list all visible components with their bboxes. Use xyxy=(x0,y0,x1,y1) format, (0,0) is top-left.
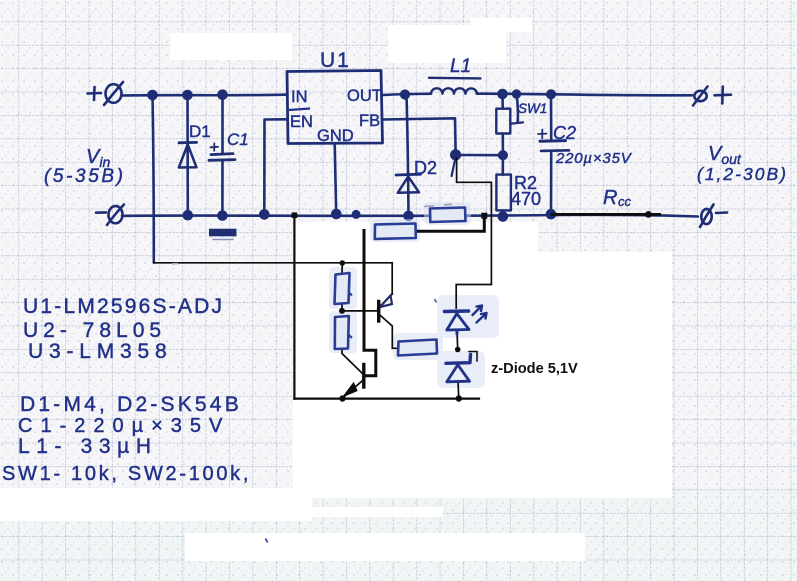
svg-text:D1: D1 xyxy=(189,122,211,141)
transistor Q2 emitter with arrow xyxy=(343,380,364,398)
capacitor C2 xyxy=(550,94,553,140)
svg-text:U1-LM2596S-ADJ: U1-LM2596S-ADJ xyxy=(23,295,224,318)
node on black wire xyxy=(340,260,346,266)
terminal phi (output +) xyxy=(694,91,706,101)
svg-text:(5-35B): (5-35B) xyxy=(44,166,126,187)
wire top rail right xyxy=(477,94,692,96)
node OUT xyxy=(401,91,409,99)
svg-text:C1-220µ×35V: C1-220µ×35V xyxy=(18,415,230,437)
svg-text:z-Diode 5,1V: z-Diode 5,1V xyxy=(491,361,578,377)
wire black bottom rail xyxy=(294,398,479,400)
wiper arrow at FB node xyxy=(452,158,456,176)
node SW1 bottom xyxy=(499,151,507,159)
wire stub below lower divider resistor xyxy=(342,348,364,375)
wire stub to upper divider resistor xyxy=(341,263,343,274)
ground bar under C1 xyxy=(209,229,237,237)
node black square on minus rail (left) xyxy=(292,212,298,218)
stray ink tick near LED xyxy=(435,299,437,303)
diode D2 xyxy=(396,173,421,177)
svg-text:U2- 78L05: U2- 78L05 xyxy=(23,319,166,342)
wire stub between divider resistors xyxy=(341,304,343,311)
node bottom rail (small) xyxy=(353,211,359,217)
resistor (divider lower) xyxy=(335,316,349,349)
resistor R sense (above rails) xyxy=(375,224,416,240)
LED light arrows xyxy=(473,306,483,316)
resistor (divider upper) xyxy=(335,208,466,356)
svg-text:OUT: OUT xyxy=(347,87,382,105)
node black square on minus rail (right) xyxy=(481,213,487,219)
node bottom rail / C1 xyxy=(218,212,226,220)
svg-text:C2: C2 xyxy=(553,123,576,143)
terminal phi (input -) xyxy=(109,206,123,223)
wire R sense (Rcc) black overlay on minus rail xyxy=(552,213,660,216)
svg-text:L1- 33µH: L1- 33µH xyxy=(18,435,158,458)
svg-text:FB: FB xyxy=(359,112,380,130)
node bottom rail / R2 xyxy=(499,213,507,221)
node z-diode on bottom rail xyxy=(456,395,462,401)
terminal phi (output -) xyxy=(701,209,711,224)
scan white patches xyxy=(0,18,672,561)
wire Q1 base xyxy=(342,310,377,312)
node LED cathode / R junction xyxy=(455,347,461,353)
labels (blue handwriting) xyxy=(2,49,788,485)
light blue scan clouds around added parts xyxy=(329,202,499,388)
terminal - (input, dash) xyxy=(96,211,106,214)
svg-text:IN: IN xyxy=(291,88,308,106)
transistor Q1 base bar xyxy=(377,302,380,322)
wire LED to R limit node xyxy=(456,330,459,350)
wire z-diode to bottom rail xyxy=(457,382,460,399)
wire U1 GND down xyxy=(335,144,337,214)
diode D1 wire xyxy=(186,95,189,215)
wire EN xyxy=(264,119,287,214)
terminal phi (input +) xyxy=(106,84,122,103)
svg-text:R: R xyxy=(603,187,617,209)
svg-text:cc: cc xyxy=(618,194,632,209)
stray ink mark bottom xyxy=(266,539,268,543)
wire top rail left xyxy=(122,93,287,97)
LED diode xyxy=(445,306,487,382)
node between divider resistors xyxy=(339,308,345,314)
node top rail / C1 xyxy=(219,91,227,99)
IC U1 (LM2596S-ADJ) box xyxy=(287,71,383,144)
thick wire from R sense left down to Q2 collector xyxy=(364,231,376,376)
wire black vertical on left xyxy=(293,215,295,398)
capacitor C1 wire xyxy=(221,95,224,154)
svg-text:SW1- 10k, SW2-100k,: SW1- 10k, SW2-100k, xyxy=(2,463,251,485)
node Q2 emitter on bottom rail xyxy=(339,395,345,401)
svg-text:(1,2-30B): (1,2-30B) xyxy=(697,164,788,184)
svg-text:U3-LM358: U3-LM358 xyxy=(28,340,172,363)
wire FB junction to SW1 bottom xyxy=(460,154,503,157)
wire bottom rail xyxy=(122,215,698,217)
node on Rcc wire xyxy=(645,211,652,218)
svg-text:U1: U1 xyxy=(320,49,351,72)
node SW1 top xyxy=(499,90,507,98)
wire black horizontal from left drop xyxy=(154,262,392,264)
resistor on minus rail xyxy=(430,208,466,223)
resistor R2 xyxy=(501,155,504,174)
z-diode top tick xyxy=(469,352,477,362)
node SW1 wiper xyxy=(513,91,520,98)
z-diode D (5,1V) xyxy=(446,355,471,364)
node top rail / D1 xyxy=(184,91,192,99)
svg-text:D2: D2 xyxy=(414,158,437,178)
stray pencil dashes xyxy=(172,204,452,263)
svg-text:EN: EN xyxy=(290,113,313,131)
wire FB xyxy=(383,118,456,151)
diode D1 xyxy=(179,141,197,144)
wire OUT to L1 xyxy=(383,94,432,95)
potentiometer SW1 xyxy=(501,94,504,109)
wire down to Q1 emitter xyxy=(391,263,393,294)
node FB junction xyxy=(451,151,460,160)
svg-text:470: 470 xyxy=(511,189,541,209)
svg-text:C1: C1 xyxy=(227,130,249,149)
node bottom rail / C2 xyxy=(547,210,555,218)
node bottom rail / D1 xyxy=(184,211,192,219)
node C2 top xyxy=(547,91,555,99)
svg-text:GND: GND xyxy=(317,127,354,145)
diode D2 wire xyxy=(407,95,409,216)
node bottom rail / GND xyxy=(332,210,340,218)
transistor Q2 base bar xyxy=(362,365,365,388)
wire vertical from + rail to black line xyxy=(153,95,154,263)
svg-text:SW1: SW1 xyxy=(518,101,547,116)
svg-text:220µ×35V: 220µ×35V xyxy=(555,150,633,167)
wire from FB node jog down to LED xyxy=(456,158,491,308)
inductor L1 xyxy=(431,88,477,93)
node top rail / left drop xyxy=(149,91,157,99)
capacitor C1 xyxy=(211,154,233,155)
svg-text:L1: L1 xyxy=(450,56,471,77)
node bottom rail / D2 xyxy=(405,212,413,220)
terminal + (input, plus sign) xyxy=(88,92,102,95)
resistor (Q1 collector, horizontal) xyxy=(398,340,437,356)
wire thick from R sense right up to minus rail xyxy=(416,216,485,232)
transistor Q1 emitter with arrow xyxy=(381,294,393,307)
svg-text:D1-M4, D2-SK54B: D1-M4, D2-SK54B xyxy=(20,393,242,416)
node bottom rail / EN xyxy=(260,210,268,218)
transistor Q1 collector xyxy=(379,314,398,348)
